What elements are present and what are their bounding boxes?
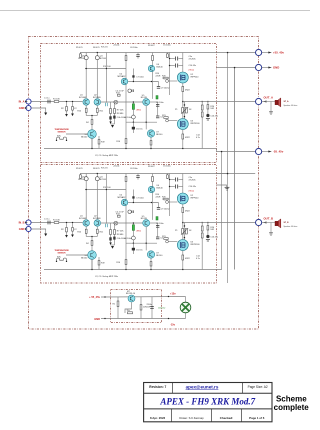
- wire GND out: [217, 67, 256, 69]
- wire -55: [217, 149, 256, 152]
- title block: [144, 383, 272, 422]
- svg-text:+ 55_45v: + 55_45v: [89, 295, 100, 299]
- svg-text:+15v: +15v: [170, 292, 176, 295]
- zener psu: [125, 302, 132, 313]
- svg-text:GND: GND: [94, 317, 100, 321]
- inner dashed box channel B: [41, 165, 217, 284]
- connector -55: [256, 148, 262, 154]
- svg-text:15v: 15v: [127, 310, 130, 312]
- connector +55: [256, 49, 262, 55]
- svg-text:IN_A: IN_A: [19, 100, 25, 104]
- outer red dashed enclosure: [29, 37, 259, 330]
- svg-text:GND: GND: [19, 106, 25, 110]
- lamp X: [185, 297, 187, 303]
- svg-text:Revision: 7: Revision: 7: [149, 385, 166, 389]
- svg-text:Drawn: S.K.Kacmap: Drawn: S.K.Kacmap: [179, 416, 204, 420]
- svg-text:BD139-16: BD139-16: [126, 293, 136, 295]
- svg-text:SP_A: SP_A: [284, 100, 290, 103]
- svg-text:Scheme: Scheme: [276, 394, 307, 403]
- ground mid: [217, 185, 227, 187]
- inner dashed box channel A: [41, 44, 217, 163]
- svg-text:Speaker 4-8 ohm: Speaker 4-8 ohm: [284, 105, 298, 107]
- svg-text:OUT_B: OUT_B: [264, 216, 273, 220]
- svg-text:10K/1W: 10K/1W: [143, 307, 150, 309]
- channel A: [32, 44, 256, 157]
- svg-text:-55_45v: -55_45v: [273, 150, 284, 154]
- input GND B: [26, 226, 31, 231]
- svg-text:APEX - FH9 XRK Mod.7: APEX - FH9 XRK Mod.7: [159, 396, 255, 406]
- connector OUT_B: [256, 219, 262, 225]
- svg-text:SP_B: SP_B: [284, 222, 290, 224]
- svg-text:-15v: -15v: [170, 323, 176, 326]
- svg-text:GND: GND: [273, 66, 279, 70]
- capacitor psu: [151, 297, 153, 319]
- input GND A: [26, 105, 31, 110]
- svg-text:+55_45v: +55_45v: [273, 51, 284, 55]
- connector OUT_A: [256, 98, 262, 104]
- input IN_B: [26, 220, 31, 225]
- svg-text:OUT_A: OUT_A: [264, 95, 273, 99]
- junction buses: [227, 52, 228, 53]
- svg-text:IN_B: IN_B: [19, 221, 25, 225]
- svg-text:R1: R1: [113, 304, 116, 306]
- wire OUT_B: [183, 222, 255, 224]
- svg-text:Checked:: Checked:: [220, 416, 234, 420]
- bus -55 to channel B rail: [217, 152, 222, 270]
- PSU dashed box: [111, 290, 162, 323]
- channel B: [32, 165, 256, 278]
- svg-text:apex@eunet.rs: apex@eunet.rs: [186, 384, 219, 389]
- input IN_A: [26, 99, 31, 104]
- svg-text:GND: GND: [19, 227, 25, 231]
- svg-text:Page Size: A2: Page Size: A2: [248, 385, 268, 389]
- svg-text:220v/15w: 220v/15w: [158, 307, 166, 309]
- bus +55 to channel B rail: [227, 53, 229, 284]
- wire OUT_A: [183, 101, 255, 103]
- PSU section: [89, 291, 191, 326]
- svg-text:2200u: 2200u: [147, 304, 153, 306]
- speaker SP_A: [269, 98, 298, 114]
- bus GND vertical: [234, 68, 236, 270]
- svg-text:Speaker 4-8 ohm: Speaker 4-8 ohm: [284, 226, 298, 228]
- transistor M7 BD139: [128, 295, 135, 302]
- page top border line: [0, 10, 310, 12]
- svg-text:Page 1 of 6: Page 1 of 6: [249, 416, 265, 420]
- wire psu top rail: [101, 296, 186, 299]
- svg-text:complete: complete: [274, 403, 310, 412]
- wire psu bottom rail: [101, 318, 186, 320]
- svg-text:8 Apr. 2023: 8 Apr. 2023: [150, 416, 166, 420]
- speaker SP_B: [269, 219, 298, 235]
- connector GND: [256, 64, 262, 70]
- resistor psu 1: [117, 297, 119, 319]
- resistor psu 2: [140, 297, 142, 319]
